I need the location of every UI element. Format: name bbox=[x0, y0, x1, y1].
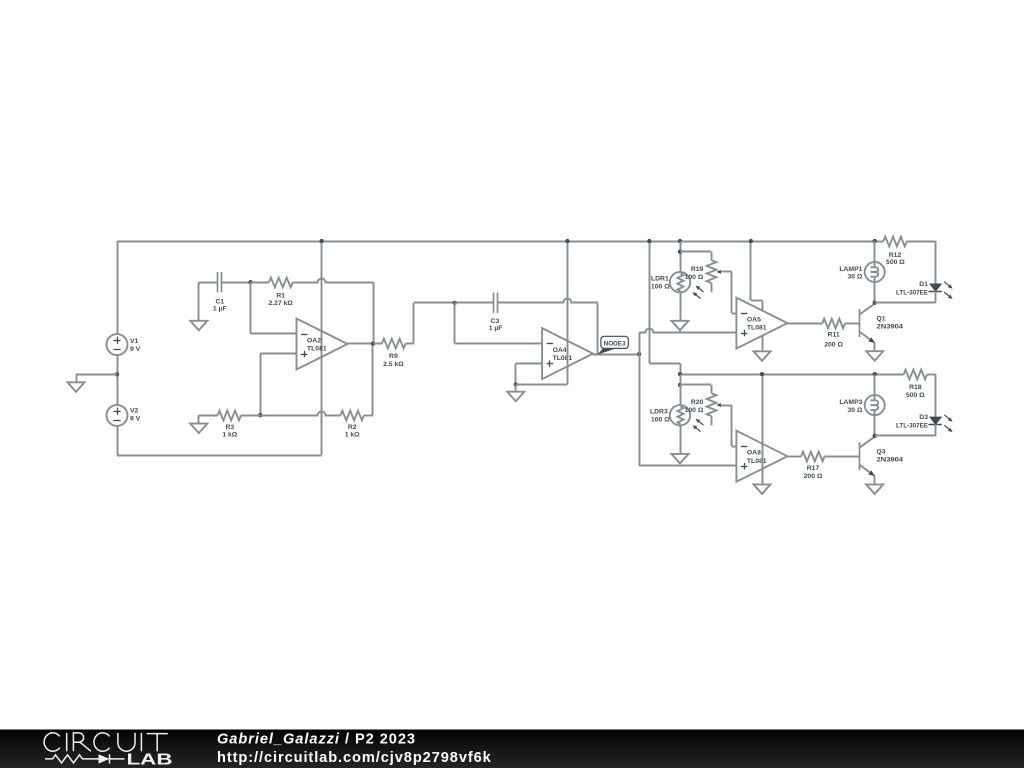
node rail OA8 bbox=[760, 372, 764, 376]
svg-text:LDR3: LDR3 bbox=[650, 408, 668, 415]
wire OA5 vplus bbox=[751, 241, 763, 310]
wire C1 left bbox=[199, 282, 218, 321]
node OA2 out bbox=[371, 341, 375, 345]
wire R18 right bbox=[927, 374, 936, 417]
svg-text:500 Ω: 500 Ω bbox=[886, 259, 905, 266]
wire bottom rail bbox=[117, 455, 322, 457]
wire R2 right lead bbox=[364, 344, 373, 416]
label R12 bbox=[886, 252, 905, 266]
op-amp OA5 bbox=[736, 298, 787, 349]
light arrows LDR3 bbox=[693, 419, 704, 432]
svg-text:100 Ω: 100 Ω bbox=[651, 417, 670, 424]
resistor R9 bbox=[382, 339, 406, 349]
wire R17 right lead bbox=[825, 456, 860, 458]
label Q3 bbox=[877, 448, 904, 463]
label Q1 bbox=[877, 315, 904, 330]
wire LAMP1 bottom bbox=[874, 277, 876, 303]
label R1 bbox=[269, 292, 294, 307]
light arrows D1 bbox=[944, 282, 952, 299]
node C3 left bbox=[453, 301, 457, 305]
svg-text:R19: R19 bbox=[691, 266, 704, 273]
capacitor C3 bbox=[494, 293, 498, 313]
wire C3 to OA4 out bbox=[597, 303, 599, 354]
lamp LAMP1 bbox=[865, 262, 885, 282]
label R2 bbox=[345, 424, 360, 439]
resistor R11 bbox=[822, 319, 845, 329]
wire R9 left lead bbox=[373, 343, 382, 345]
label LAMP3 bbox=[839, 399, 863, 414]
wire LAMP3 top bbox=[874, 374, 876, 401]
svg-text:1 kΩ: 1 kΩ bbox=[345, 432, 360, 439]
svg-text:V1: V1 bbox=[130, 338, 139, 345]
wire LAMP3 bottom bbox=[874, 410, 876, 436]
node lower rail start bbox=[678, 372, 682, 376]
wire V2 bottom bbox=[117, 426, 119, 455]
svg-text:V2: V2 bbox=[130, 407, 139, 414]
wire OA4 power vertical bbox=[567, 241, 569, 385]
label R17 bbox=[804, 465, 823, 480]
transistor Q3 bbox=[859, 437, 874, 476]
label R19 bbox=[685, 266, 704, 281]
label R3 bbox=[222, 424, 237, 439]
lamp LAMP3 bbox=[865, 395, 885, 415]
wire R12 right bbox=[907, 241, 936, 284]
svg-text:200 Ω: 200 Ω bbox=[804, 473, 823, 480]
svg-text:LAMP1: LAMP1 bbox=[839, 266, 862, 273]
photoresistor LDR3 bbox=[670, 405, 690, 425]
wire V1-V2 bbox=[117, 355, 119, 405]
wire OA2 power vertical bbox=[321, 241, 323, 455]
footer url text bbox=[217, 750, 492, 766]
wire Q3 emitter bbox=[874, 476, 876, 484]
svg-text:Q1: Q1 bbox=[877, 315, 886, 322]
ground LDR3 bbox=[672, 454, 689, 464]
label C3 bbox=[489, 318, 503, 332]
label LDR3 bbox=[650, 408, 670, 423]
ground OA5 bbox=[754, 351, 771, 361]
light arrows LDR1 bbox=[693, 286, 704, 299]
svg-text:R3: R3 bbox=[225, 424, 234, 431]
wire OA5 output bbox=[787, 323, 822, 325]
wire OA5 vminus bbox=[762, 336, 764, 351]
svg-text:TL081: TL081 bbox=[747, 325, 767, 332]
voltage source V1 bbox=[107, 334, 128, 355]
CircuitLab logo resistor-diode symbol bbox=[45, 754, 125, 763]
footer bar bbox=[0, 730, 1024, 768]
svg-text:2.5 kΩ: 2.5 kΩ bbox=[383, 361, 404, 368]
ground Q1 bbox=[866, 351, 883, 361]
wire R1 right lead bbox=[293, 279, 374, 283]
svg-text:R2: R2 bbox=[348, 424, 357, 431]
svg-text:2N3904: 2N3904 bbox=[877, 457, 904, 464]
light arrows D3 bbox=[944, 415, 952, 432]
svg-text:OA4: OA4 bbox=[553, 347, 567, 354]
svg-text:500 Ω: 500 Ω bbox=[906, 392, 925, 399]
wire to OA8 plus bbox=[639, 354, 736, 466]
svg-text:R1: R1 bbox=[276, 292, 285, 299]
label D3 bbox=[896, 414, 934, 430]
node rail OA4 bbox=[565, 239, 569, 243]
ground R3 bbox=[190, 424, 207, 434]
node B bbox=[258, 413, 262, 417]
node rail LDR1 bbox=[678, 239, 682, 243]
svg-text:D1: D1 bbox=[919, 281, 928, 288]
wire to OA5 plus bbox=[639, 329, 736, 355]
svg-text:R17: R17 bbox=[807, 465, 820, 472]
wire R3 right lead bbox=[241, 415, 260, 417]
svg-text:R9: R9 bbox=[389, 353, 398, 360]
svg-text:OA5: OA5 bbox=[747, 317, 761, 324]
wire R9 right lead bbox=[406, 303, 455, 344]
wire OA8 output bbox=[787, 456, 801, 458]
resistor R3 bbox=[218, 411, 241, 421]
wire LDR1 top bbox=[680, 241, 682, 272]
wire LDR3 bottom bbox=[680, 426, 682, 454]
wire OA4 output bbox=[593, 354, 639, 356]
svg-text:1 kΩ: 1 kΩ bbox=[222, 432, 237, 439]
ground OA8 bbox=[754, 484, 771, 494]
label R20 bbox=[685, 399, 704, 414]
wire OA4 plus input bbox=[516, 364, 543, 385]
node mid supply bbox=[115, 372, 119, 376]
svg-text:TL081: TL081 bbox=[307, 346, 327, 353]
wire R19 wiper bbox=[716, 270, 736, 314]
capacitor C1 bbox=[218, 272, 222, 292]
wire D3 bottom bbox=[875, 424, 936, 436]
wire R1 left lead bbox=[251, 282, 269, 284]
wire rail feed lower bbox=[649, 241, 680, 374]
CircuitLab logo text LAB bbox=[127, 751, 173, 768]
svg-text:R20: R20 bbox=[691, 399, 704, 406]
svg-text:30 Ω: 30 Ω bbox=[847, 274, 862, 281]
label D1 bbox=[896, 281, 934, 297]
wire R19 top lead bbox=[680, 252, 712, 261]
ground Q3 bbox=[866, 484, 883, 494]
svg-text:30 Ω: 30 Ω bbox=[847, 407, 862, 414]
svg-text:Q3: Q3 bbox=[877, 448, 886, 455]
LED D1 bbox=[929, 284, 941, 292]
CircuitLab logo text CIRCUIT bbox=[44, 733, 168, 751]
label C1 bbox=[213, 298, 227, 312]
voltage source V2 bbox=[107, 405, 128, 426]
label R18 bbox=[906, 384, 925, 399]
photoresistor LDR1 bbox=[670, 272, 690, 292]
svg-text:2.27 kΩ: 2.27 kΩ bbox=[269, 300, 294, 307]
wire R11 right lead bbox=[845, 323, 859, 325]
svg-text:R11: R11 bbox=[828, 332, 840, 339]
node Q3 collector bbox=[873, 434, 877, 438]
svg-text:2N3904: 2N3904 bbox=[877, 324, 904, 331]
wire OA4 gnd stem bbox=[515, 385, 517, 392]
wire OA4 vminus link bbox=[516, 384, 568, 386]
wire LDR3 top bbox=[680, 374, 682, 405]
node rail feed bbox=[647, 239, 651, 243]
svg-text:R12: R12 bbox=[889, 252, 902, 259]
svg-text:Gabriel_Galazzi / P2 2023: Gabriel_Galazzi / P2 2023 bbox=[217, 732, 416, 748]
svg-text:100 Ω: 100 Ω bbox=[651, 284, 670, 291]
svg-text:OA2: OA2 bbox=[307, 337, 321, 344]
wire Q1 emitter bbox=[874, 343, 876, 351]
op-amp OA2 bbox=[297, 319, 348, 370]
node LDR3 tap bbox=[678, 383, 682, 387]
wire top rail left segment bbox=[117, 241, 883, 243]
ground LDR1 bbox=[672, 321, 689, 331]
svg-text:R18: R18 bbox=[909, 384, 922, 391]
svg-text:D3: D3 bbox=[919, 414, 928, 421]
wire OA2 minus input bbox=[251, 282, 297, 334]
ground C1 bbox=[190, 321, 207, 331]
label LAMP1 bbox=[839, 266, 863, 281]
svg-text:OA8: OA8 bbox=[747, 450, 761, 457]
resistor R12 bbox=[883, 237, 906, 247]
potentiometer R19 bbox=[707, 260, 717, 292]
svg-text:http://circuitlab.com/cjv8p279: http://circuitlab.com/cjv8p2798vf6k bbox=[217, 750, 492, 766]
svg-text:LAMP3: LAMP3 bbox=[839, 399, 862, 406]
wire OA4 minus input bbox=[455, 303, 543, 344]
svg-text:200 Ω: 200 Ω bbox=[824, 341, 843, 348]
wire OA8 power vertical bbox=[762, 374, 764, 484]
label LDR1 bbox=[651, 275, 670, 290]
op-amp OA4 bbox=[542, 328, 593, 379]
resistor R1 bbox=[269, 278, 293, 288]
ground OA4 bbox=[507, 392, 524, 402]
node Q1 collector bbox=[873, 301, 877, 305]
node LDR1 tap bbox=[678, 250, 682, 254]
svg-text:9 V: 9 V bbox=[130, 416, 141, 423]
node flag NODE3 bbox=[597, 336, 628, 354]
label R11 bbox=[824, 332, 843, 349]
svg-text:TL081: TL081 bbox=[747, 458, 767, 465]
node rail LAMP3 bbox=[873, 372, 877, 376]
op-amp OA8 bbox=[736, 431, 787, 482]
wire OA2 plus input bbox=[260, 354, 296, 416]
wire LDR1 bottom bbox=[680, 292, 682, 320]
wire D1 bottom bbox=[875, 291, 936, 303]
wire R20 top lead bbox=[680, 385, 712, 394]
node A bbox=[248, 280, 252, 284]
label V1 bbox=[130, 338, 141, 353]
svg-text:1 µF: 1 µF bbox=[213, 305, 227, 312]
resistor R18 bbox=[904, 370, 927, 380]
wire C3 left lead bbox=[455, 302, 494, 304]
ground supply bbox=[68, 382, 85, 392]
wire LAMP1 top bbox=[874, 241, 876, 268]
footer title text bbox=[217, 732, 416, 748]
svg-text:100 Ω: 100 Ω bbox=[685, 407, 704, 414]
wire lower rail bbox=[680, 374, 904, 376]
transistor Q1 bbox=[859, 304, 874, 343]
node rail OA2 bbox=[319, 239, 323, 243]
label R9 bbox=[383, 353, 404, 368]
svg-text:LDR1: LDR1 bbox=[651, 275, 669, 282]
svg-text:100 Ω: 100 Ω bbox=[685, 274, 704, 281]
wire Q1 collector bbox=[874, 302, 876, 305]
LED D3 bbox=[929, 417, 941, 424]
wire R3 left lead bbox=[199, 415, 218, 423]
node NODE3 junction bbox=[637, 352, 641, 356]
node rail LAMP1 bbox=[873, 239, 877, 243]
node OA4 gnd bbox=[514, 382, 518, 386]
wire C3 right lead bbox=[498, 299, 598, 303]
resistor R17 bbox=[801, 452, 824, 462]
wire V1 top bbox=[117, 241, 119, 334]
wire OA2 output bbox=[347, 343, 373, 345]
svg-text:LTL-307EE: LTL-307EE bbox=[896, 289, 928, 296]
potentiometer R20 bbox=[707, 393, 717, 425]
resistor R2 bbox=[340, 411, 364, 421]
svg-text:NODE3: NODE3 bbox=[604, 341, 626, 348]
wire R20 wiper bbox=[716, 403, 736, 447]
wire C1 right bbox=[222, 282, 251, 284]
node rail OA5 bbox=[749, 239, 753, 243]
wire R2 left lead bbox=[260, 412, 340, 416]
wire R1 to output junction bbox=[373, 282, 375, 343]
svg-text:LAB: LAB bbox=[127, 751, 173, 768]
svg-text:9 V: 9 V bbox=[130, 346, 141, 353]
wire supply ground tap bbox=[76, 374, 117, 382]
svg-text:1 µF: 1 µF bbox=[489, 325, 503, 332]
label V2 bbox=[130, 407, 141, 422]
svg-text:TL081: TL081 bbox=[553, 355, 573, 362]
svg-text:LTL-307EE: LTL-307EE bbox=[896, 422, 928, 429]
